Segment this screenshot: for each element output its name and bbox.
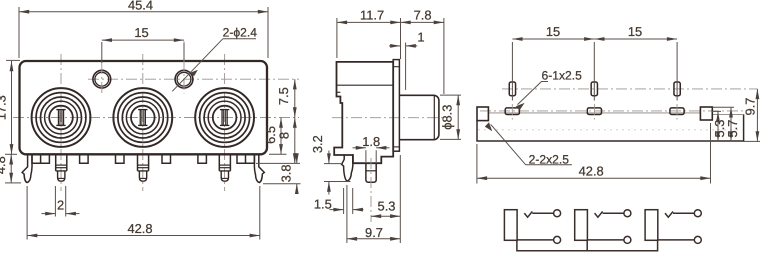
svg-text:11.7: 11.7 (360, 7, 384, 22)
side signal pin (366, 163, 376, 182)
svg-text:1.8: 1.8 (362, 134, 380, 149)
barrel (phi 8.3 bushing) (399, 95, 439, 139)
jack J2 face (113, 88, 172, 147)
centerline jack 1 vertical (60, 54, 62, 191)
dim 7.5 right (276, 79, 295, 117)
left hook ground pin (22, 154, 32, 182)
dim 9.7 (middle) (347, 185, 400, 243)
svg-text:1: 1 (417, 30, 424, 45)
side signal pin step line (366, 170, 376, 172)
right hook ground pin (254, 154, 264, 182)
dim 11.7 / 7.8 top (337, 7, 444, 94)
dim 42.8 bottom (front) (27, 186, 260, 240)
dim 9.7 (right view) (743, 89, 760, 141)
side hook ground pin (342, 154, 353, 181)
svg-text:5.7: 5.7 (725, 120, 740, 138)
pad A3 (674, 82, 680, 96)
jack J3 face (195, 88, 254, 147)
dim 1.8 (pin width) (353, 134, 390, 162)
dim 5.7 (right view) (713, 107, 741, 141)
svg-text:45.4: 45.4 (128, 0, 153, 12)
dim 15 (hole spacing) (102, 25, 184, 63)
svg-text:7.8: 7.8 (414, 7, 432, 22)
side view centerline horizontal (332, 117, 446, 119)
strip hidden line (478, 129, 743, 131)
svg-text:6-1x2.5: 6-1x2.5 (542, 69, 583, 83)
label 2-2x2.5 with leader to left square pad (485, 122, 572, 166)
square pad 2x2.5 right (700, 107, 712, 120)
svg-text:9.7: 9.7 (743, 98, 758, 116)
svg-text:8: 8 (276, 132, 291, 139)
pin P3 (jack 3 center pin) (219, 154, 230, 181)
dim 45.4 top (19, 0, 268, 58)
mounting hole H2 (175, 70, 193, 88)
svg-text:9.7: 9.7 (365, 225, 383, 240)
body front outline (20, 61, 268, 154)
dim 15 / 15 (pad spacing) (512, 24, 677, 100)
jack symbol S1 (504, 210, 560, 244)
dim 3.2 (310, 135, 351, 194)
dim 1.5 (hook pin) (314, 188, 364, 214)
pad B2 (587, 108, 601, 115)
label 6-1x2.5 with leader to pad B1 (516, 69, 582, 110)
dim 4.8 left (0, 154, 21, 183)
pad A2 (591, 82, 597, 96)
jack symbol S3 (645, 210, 701, 244)
svg-text:1.5: 1.5 (314, 197, 332, 212)
dim 8 right (256, 118, 300, 164)
strip top edge between pads (488, 112, 700, 114)
svg-text:2-2x2.5: 2-2x2.5 (529, 152, 570, 166)
svg-text:17.3: 17.3 (0, 95, 9, 120)
pad B1 crosshair (511, 104, 513, 120)
svg-text:ϕ8.3: ϕ8.3 (439, 105, 454, 130)
strip top edge right part (712, 113, 743, 115)
pad B3 (670, 108, 684, 115)
jack J1 face (32, 88, 91, 147)
jack symbol S2 (575, 210, 631, 244)
svg-text:4.8: 4.8 (0, 156, 8, 174)
flange top step (393, 66, 399, 68)
svg-text:15: 15 (134, 25, 148, 40)
svg-text:3.8: 3.8 (278, 164, 293, 182)
svg-text:42.8: 42.8 (579, 163, 604, 178)
mounting hole H1 (93, 70, 111, 88)
svg-text:42.8: 42.8 (127, 221, 152, 236)
dim 5.3 (middle) (371, 155, 400, 243)
hole H1 vertical centerline (101, 63, 103, 94)
svg-text:2-ϕ2.4: 2-ϕ2.4 (223, 25, 258, 39)
pin P2 (jack 2 center pin) (138, 154, 149, 181)
side body step divider (337, 91, 341, 93)
barrel end cap line (433, 96, 435, 140)
label 2-phi2.4 with leader to hole H2 (172, 25, 257, 91)
flange plate (393, 60, 399, 152)
hole H2 vertical centerline (183, 41, 185, 94)
centerline jack 2 vertical (142, 54, 144, 191)
dim phi8.3 (439, 95, 461, 139)
pin P1 (jack 1 center pin) (56, 154, 67, 181)
side body inner edge horizontal (337, 84, 394, 86)
dim 1 (flange thickness) (389, 30, 424, 90)
pad B1 (1x2.5 horizontal) (505, 108, 519, 115)
flange bottom step (393, 146, 399, 148)
dim 6.5 right (263, 118, 287, 155)
dim 42.8 (right view) (477, 123, 711, 184)
dim 3.8 right (263, 155, 301, 193)
centerline horizontal through jacks (13, 117, 299, 119)
dim 2 (pin width) (41, 186, 79, 217)
svg-text:7.5: 7.5 (276, 87, 291, 105)
square pad 2x2.5 left (477, 107, 488, 121)
centerline horizontal through mounting holes (88, 78, 299, 80)
pad A1 (1x2.5 vertical) (509, 82, 515, 96)
ground bus wire (517, 240, 658, 250)
centerline jack 3 vertical (224, 54, 226, 191)
svg-text:5.3: 5.3 (378, 199, 396, 214)
side body outline (334, 62, 393, 163)
bus drop wire S2 (586, 240, 588, 250)
svg-text:15: 15 (546, 24, 560, 39)
row2 centerline (480, 110, 744, 112)
svg-text:2: 2 (57, 197, 64, 212)
bracket strip outline (477, 114, 744, 141)
pad B2 crosshair (593, 104, 595, 120)
svg-text:15: 15 (628, 24, 642, 39)
side pin centerline (370, 158, 372, 222)
row1 centerline (502, 88, 758, 90)
dim 17.3 left (0, 60, 20, 154)
pad B3 crosshair (676, 104, 678, 120)
dim 5.3 (right view) (712, 111, 727, 141)
solder tab row under body (32, 154, 254, 163)
svg-text:3.2: 3.2 (310, 135, 325, 153)
